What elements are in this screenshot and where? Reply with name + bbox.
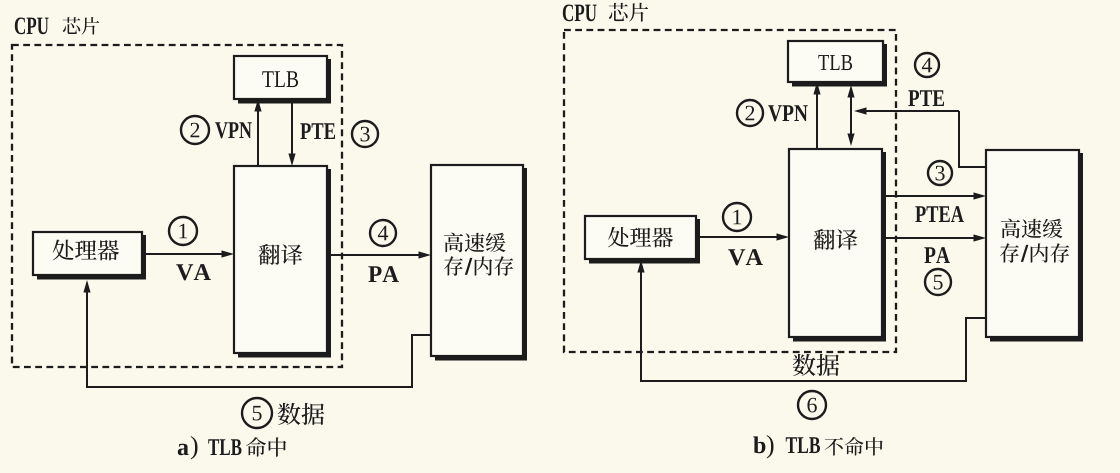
wire PA arrow (a) [327,251,431,258]
label VPN (a) [215,122,252,138]
label 翻译 (b) [814,229,858,250]
wire VA arrow (a) [142,250,234,257]
wire PTE arrow (a) [288,99,295,166]
circled 1 (a) [169,217,197,245]
box MMU translation (b) [789,149,886,342]
wire PTEA arrow (b) [882,192,986,199]
label PTE (b) [908,90,944,106]
circled 4 (a) [370,220,396,246]
circled 6 (b) [798,391,826,419]
label CPU chip (b) [563,3,648,22]
label 存/内存 (b) [1000,243,1069,262]
circled 4 (b) [915,53,939,77]
label TLB (b) [818,55,852,70]
label 处理器 (a) [53,240,119,261]
circled 3 (a) [352,121,378,147]
label PTE (a) [300,123,335,139]
label PA (b) [924,247,950,263]
label 数据 (a) [278,403,324,425]
box MMU translation (a) [234,166,331,358]
box TLB (b) [788,41,887,87]
label TLB (a) [262,71,298,87]
box TLB (a) [234,56,331,104]
label VA (a) [176,264,211,280]
caption a) TLB hit [178,436,286,460]
circled 5 (b) [925,269,951,295]
box cache/memory (b) [986,150,1083,342]
box cache/memory (a) [431,165,527,361]
circled 2 (b) [737,100,763,126]
label 数据 (b) [793,354,839,376]
wire PA arrow (b) [882,234,986,241]
dashed CPU chip boundary (a) [12,45,342,367]
label PA (a) [368,266,398,282]
label 高速缓 (a) [444,233,505,253]
circled 2 (a) [181,116,209,144]
circled 5 (a) [242,398,272,428]
box processor (b) [585,216,700,264]
label 高速缓 (b) [1001,219,1062,239]
wire VPN arrow (a) [254,99,261,166]
label VA (b) [728,249,763,265]
dashed CPU chip boundary (b) [564,30,896,352]
wire PTE return path (b) [854,107,986,167]
label PTEA (b) [915,206,964,222]
wire TLB-PTE double arrow (b) [847,85,854,146]
label 翻译 (a) [259,244,303,265]
label VPN (b) [768,105,808,121]
label 处理器 (b) [608,227,673,247]
label 存/内存 (a) [444,256,513,275]
caption b) TLB miss [753,435,882,459]
wire data return (b) [637,260,986,381]
wire data return (a) [83,280,431,387]
box processor (a) [33,232,146,280]
circled 3 (b) [928,161,952,185]
circled 1 (b) [723,203,751,231]
wire VPN arrow (b) [813,82,820,149]
label CPU chip (a) [15,17,99,35]
wire VA arrow (b) [696,233,789,240]
